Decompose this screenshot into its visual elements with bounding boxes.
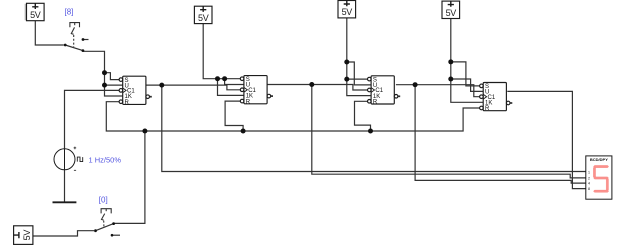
svg-text:5V: 5V <box>30 10 41 20</box>
svg-text:5V: 5V <box>198 13 209 23</box>
svg-text:1 Hz/50%: 1 Hz/50% <box>89 155 122 164</box>
svg-text:2: 2 <box>588 176 590 180</box>
svg-text:5V: 5V <box>446 8 457 18</box>
svg-text:8: 8 <box>588 187 590 191</box>
svg-text:R: R <box>373 100 378 106</box>
svg-text:R: R <box>125 100 130 106</box>
svg-text:4: 4 <box>588 182 590 186</box>
svg-text:5V: 5V <box>22 230 32 241</box>
svg-text:1: 1 <box>588 170 590 174</box>
svg-text:[0]: [0] <box>99 196 108 205</box>
svg-text:BCD/DPY: BCD/DPY <box>590 157 608 162</box>
svg-text:R: R <box>246 99 251 105</box>
svg-text:[8]: [8] <box>65 8 74 17</box>
svg-text:R: R <box>485 106 490 112</box>
svg-text:5V: 5V <box>342 7 353 17</box>
